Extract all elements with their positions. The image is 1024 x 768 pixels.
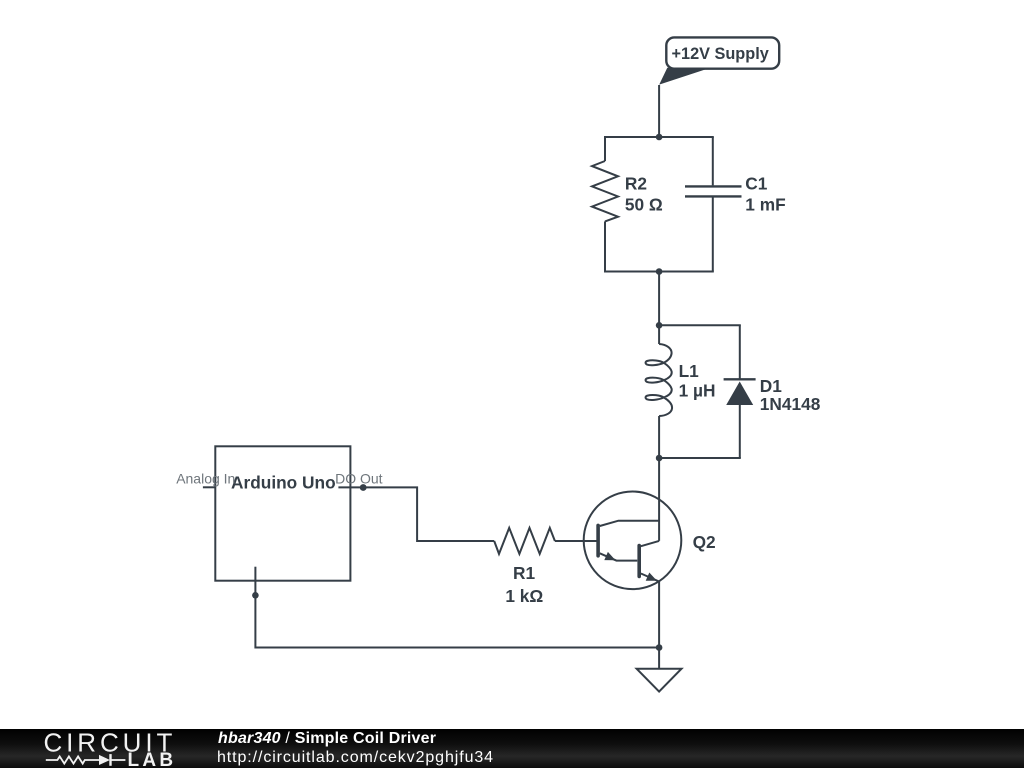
label C1 name and value 1 mF (745, 173, 785, 214)
wire: LD block top edge (659, 324, 740, 326)
wire: node B down to node C (658, 272, 660, 326)
footer bar (0, 729, 1024, 768)
wire: node D down to Q2 collector (658, 458, 660, 541)
wire: R2 bottom lead (604, 221, 606, 271)
capacitor C1 (685, 186, 742, 196)
label R1 name and value 1 kΩ (505, 563, 543, 606)
wire: R1 right lead to Q2 base (555, 540, 597, 542)
wire: DO Out pin to R1 (right, down, right) (363, 487, 494, 541)
wire: R2 top lead (604, 137, 606, 161)
wire: RC block top edge (605, 136, 713, 138)
inductor L1 (646, 344, 672, 416)
svg-text:R2: R2 (625, 173, 647, 193)
svg-text:50 Ω: 50 Ω (625, 195, 663, 215)
svg-text:Arduino Uno: Arduino Uno (231, 472, 336, 492)
svg-text:DO Out: DO Out (335, 471, 383, 487)
svg-text:L1: L1 (679, 361, 700, 381)
wire: RC block bottom edge (605, 271, 713, 273)
wire: supply flag down to node A (658, 85, 660, 137)
node D junction (bottom of LD block) (656, 455, 663, 462)
wire: C1 bottom lead (712, 197, 714, 271)
wire: C1 top lead (712, 137, 714, 185)
node B junction (bottom of RC block) (656, 268, 663, 275)
wire: L1 bottom lead (658, 416, 660, 458)
svg-text:LAB: LAB (128, 750, 177, 768)
wire: LD block bottom edge (659, 457, 740, 459)
svg-text:1 µH: 1 µH (679, 380, 716, 400)
pin DO Out (stub, junction dot and gray label) (335, 471, 383, 491)
wire: L1 top lead (658, 325, 660, 344)
Arduino Uno subcircuit box (215, 446, 350, 580)
svg-text:1 mF: 1 mF (745, 195, 785, 215)
svg-text:1 kΩ: 1 kΩ (505, 586, 543, 606)
CircuitLab logo (0, 729, 200, 768)
svg-text:Analog In: Analog In (176, 471, 235, 487)
pin Analog In (stub and gray label) (176, 471, 235, 488)
wire: Q2 emitter down to ground node (658, 582, 660, 648)
label D1 name and value 1N4148 (760, 376, 821, 414)
resistor R2 (592, 161, 618, 221)
resistor R1 (494, 528, 555, 554)
label R2 name and value 50 Ω (625, 173, 663, 214)
pin GND of Arduino (bottom stub) (254, 567, 256, 596)
transistor Q2 (NPN darlington) (584, 492, 682, 590)
ground symbol (637, 669, 682, 692)
diode D1 (cathode bar and triangle) (724, 379, 756, 405)
wire: Arduino ground pin down and right to ground node (255, 595, 659, 647)
svg-text:Q2: Q2 (693, 532, 716, 552)
node C junction (top of LD block) (656, 322, 663, 329)
label L1 name and value 1 µH (679, 361, 716, 400)
power net flag +12V Supply (659, 37, 779, 84)
wire: ground node to ground symbol (658, 648, 660, 669)
svg-text:C1: C1 (745, 173, 767, 193)
svg-text:R1: R1 (513, 563, 535, 583)
node F junction (ground net) (656, 644, 663, 651)
wire: D1 top lead (739, 325, 741, 379)
wire: D1 bottom lead (739, 405, 741, 458)
svg-text:+12V Supply: +12V Supply (672, 45, 769, 63)
svg-text:1N4148: 1N4148 (760, 394, 821, 414)
node A junction (+12V rail, top of RC block) (656, 134, 663, 141)
svg-text:D1: D1 (760, 376, 782, 396)
node E junction (Arduino ground pin) (252, 592, 259, 599)
footer title and url text (217, 728, 219, 730)
